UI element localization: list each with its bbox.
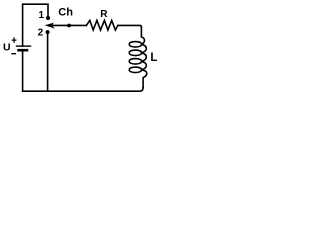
- svg-text:L: L: [150, 52, 157, 64]
- svg-text:R: R: [100, 9, 108, 20]
- svg-text:Ch: Ch: [58, 6, 73, 18]
- svg-text:U: U: [3, 41, 11, 53]
- svg-text:2: 2: [38, 28, 44, 39]
- svg-text:1: 1: [39, 10, 45, 21]
